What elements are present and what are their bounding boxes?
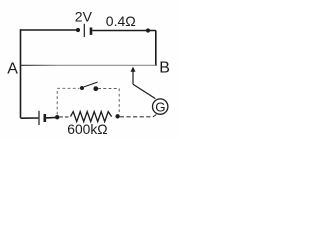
wire resistor to galvanometer (dashed) [120, 114, 158, 117]
wire junction to resistor (dashed) [60, 116, 71, 118]
cell B2 short plate [43, 114, 46, 122]
svg-text:A: A [7, 60, 18, 77]
key K lever [84, 82, 98, 87]
wire cell to junction [46, 116, 57, 119]
node junction dot left of cell [76, 28, 80, 32]
key branch top-left run (dashed) [57, 87, 79, 89]
wire left vertical [20, 29, 22, 118]
key branch top-right run (dashed) [98, 88, 119, 90]
key K contact dot left [80, 86, 84, 90]
potentiometer wire A-B [21, 64, 156, 66]
galvanometer G circle [153, 99, 168, 114]
node junction dot near top-right corner [146, 28, 150, 32]
node junction dot left of resistor [55, 115, 59, 119]
key branch right vertical (dashed) [118, 89, 120, 115]
jockey arrow shaft [132, 69, 134, 85]
wire top-right horizontal 0.4ohm segment [92, 30, 156, 32]
wire top-left horizontal [21, 29, 79, 31]
svg-text:0.4Ω: 0.4Ω [106, 13, 136, 29]
svg-text:B: B [159, 60, 170, 77]
key K contact dot right [93, 86, 98, 91]
svg-text:2V: 2V [75, 9, 93, 25]
jockey wire to galvanometer [133, 84, 155, 98]
wire bottom-left horizontal [21, 117, 39, 119]
cell B1 2V short plate [90, 28, 93, 35]
cell B1 2V long plate [83, 24, 85, 37]
node junction dot right of resistor [115, 114, 119, 118]
svg-text:G: G [155, 99, 165, 114]
cell B2 long plate [38, 111, 40, 125]
resistor R1 600k zigzag [71, 112, 112, 122]
wire right vertical [155, 31, 157, 66]
svg-text:600kΩ: 600kΩ [67, 122, 107, 137]
key branch left vertical (dashed) [56, 89, 58, 115]
jockey arrowhead [131, 67, 136, 72]
